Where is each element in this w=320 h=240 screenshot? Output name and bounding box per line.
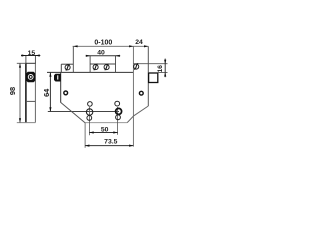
- left jaw block left edge: [60, 64, 62, 72]
- 50-dim line: [89, 132, 117, 134]
- left column bottom hole: [87, 116, 92, 121]
- 50-dim extension left (through hole column): [88, 107, 90, 135]
- body left chamfer: [61, 102, 86, 123]
- dimension 98 extension bottom: [17, 122, 36, 124]
- svg-text:73.5: 73.5: [104, 139, 117, 146]
- middle block top: [90, 63, 115, 65]
- svg-text:15: 15: [28, 50, 36, 57]
- nut inner ring: [29, 75, 32, 78]
- screw B (middle block left): [93, 65, 98, 70]
- body right edge: [147, 46, 149, 106]
- side view division line: [26, 100, 36, 102]
- left jaw block top: [61, 63, 73, 65]
- 73.5-dim extension left: [84, 123, 86, 148]
- 40-dim arrows (outside): [86, 55, 90, 57]
- clamp nut block (black): [26, 72, 35, 82]
- side view body left edge: [25, 63, 27, 122]
- 16-dim bottom extension: [148, 72, 167, 74]
- nut hole: [28, 74, 34, 80]
- right column top hole: [115, 101, 120, 106]
- 16-dim line: [164, 59, 166, 78]
- body upper right chamfer: [133, 106, 148, 116]
- lead screw end block (black, slotted): [54, 74, 61, 82]
- screw D (fixed jaw): [134, 64, 139, 69]
- svg-text:0-100: 0-100: [94, 39, 112, 46]
- small hole right: [139, 91, 143, 95]
- square notch on right edge: [149, 73, 158, 83]
- right column bottom hole: [116, 115, 121, 120]
- 73.5-dim line: [85, 145, 133, 147]
- svg-text:98: 98: [8, 87, 17, 95]
- 16-dim arrows: [164, 60, 166, 64]
- svg-text:64: 64: [42, 88, 51, 97]
- 73.5-dim arrows: [85, 145, 89, 147]
- top dimension line (0-100 and 24): [73, 45, 149, 47]
- dimension 98 extension top: [17, 62, 26, 64]
- middle block right edge + 40 extension: [115, 56, 117, 73]
- slot in end block: [57, 75, 58, 79]
- dimension 98 line: [19, 63, 21, 122]
- left jaw block right edge + 0-100 extension: [72, 46, 74, 72]
- body lower right chamfer: [127, 116, 133, 123]
- internal edge / extension line V1 (jaw face): [132, 46, 134, 146]
- 50-dim arrows: [89, 131, 93, 133]
- svg-text:40: 40: [97, 49, 105, 56]
- dimension 15 extension lines: [25, 56, 27, 64]
- 40-dim line: [86, 55, 120, 57]
- 0-100 right arrow / 24 left arrow: [129, 45, 133, 47]
- side view body top edge: [25, 62, 36, 64]
- svg-text:24: 24: [135, 39, 143, 46]
- screw A (left block): [65, 65, 70, 70]
- svg-text:50: 50: [101, 126, 109, 133]
- dimension 15 line: [21, 55, 40, 57]
- small hole left: [64, 91, 68, 95]
- screw C (middle block right): [104, 65, 109, 70]
- dimension 98 arrows: [19, 63, 21, 67]
- fixed jaw top edge + 16-dim top extension: [133, 63, 167, 65]
- side view body right edge: [34, 63, 36, 122]
- middle block left edge + 40 extension: [89, 56, 91, 73]
- 24 right arrow: [144, 45, 148, 47]
- 50-dim extension right (through hole column): [117, 107, 119, 135]
- body bottom edge: [85, 122, 127, 124]
- 64-dim line: [49, 72, 51, 111]
- rail top edge (also 64-dim top extension): [47, 71, 133, 73]
- lead screw axis line (also 64-dim bottom extension): [48, 111, 119, 113]
- left column top hole: [88, 102, 93, 107]
- right column screw boss (thick): [116, 108, 122, 114]
- 0-100 left arrow: [73, 45, 77, 47]
- svg-text:16: 16: [157, 65, 164, 73]
- left column screw boss: [86, 109, 92, 115]
- 64-dim arrows: [49, 72, 51, 76]
- dimension 15 arrows: [22, 54, 26, 56]
- body left edge: [60, 72, 62, 102]
